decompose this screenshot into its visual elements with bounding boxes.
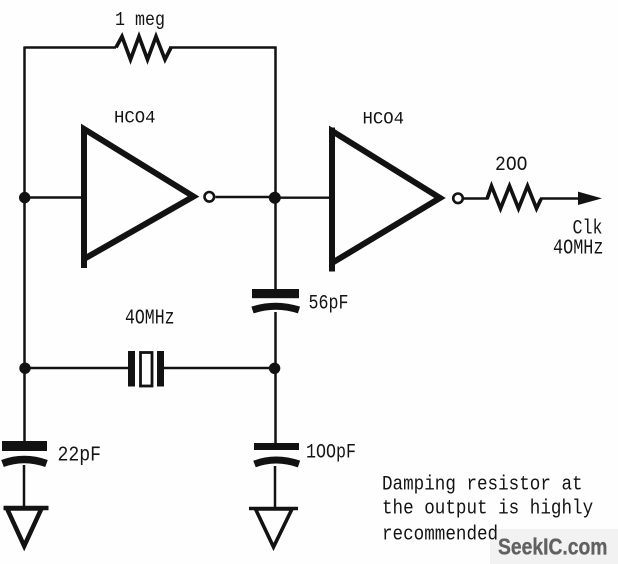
svg-text:recommended: recommended (382, 523, 498, 546)
wire C2 to ground (23, 465, 26, 508)
wire U2 output to R2 (464, 197, 488, 199)
svg-text:the output is highly: the output is highly (382, 497, 593, 520)
U1 bottom edge overshoot (81, 258, 87, 268)
capacitor C2 22pF curved plate (3, 460, 47, 464)
svg-text:2OO: 2OO (495, 153, 527, 176)
wire top feedback right segment (169, 46, 277, 48)
U2 bottom edge overshoot (329, 262, 335, 272)
wire U1 output to node B (216, 196, 277, 198)
crystal Y1 body rectangle (141, 353, 153, 387)
wire crystal line left (25, 367, 129, 369)
ground symbol right (249, 509, 298, 548)
svg-text:HCO4: HCO4 (114, 109, 156, 128)
wire crystal line right (163, 367, 275, 369)
svg-text:1 meg: 1 meg (115, 10, 165, 31)
svg-text:4OMHz: 4OMHz (125, 306, 174, 330)
svg-text:1OOpF: 1OOpF (306, 440, 356, 464)
wire R2 to output arrow (540, 197, 580, 200)
U1 output bubble (205, 192, 215, 202)
capacitor C1 56pF curved plate (253, 306, 300, 310)
watermark background strip (490, 529, 618, 564)
wire top feedback left segment (25, 46, 117, 48)
wire right vertical rail lower (274, 466, 277, 508)
capacitor C2 22pF top plate (2, 441, 47, 451)
U2 output bubble (453, 194, 463, 204)
crystal Y1 right plate (157, 351, 164, 387)
wire node B to inverter U2 (276, 196, 331, 198)
node A dot (input junction) (19, 192, 30, 203)
U2 top edge overshoot (329, 128, 335, 132)
op-amp U2 HC04 inverter triangle (332, 131, 440, 263)
wire right vertical rail middle (274, 312, 277, 444)
node D dot (crystal right junction) (269, 363, 280, 374)
svg-text:SeekIC.com: SeekIC.com (498, 535, 607, 560)
op-amp U1 HC04 inverter triangle (84, 129, 194, 259)
svg-text:HCO4: HCO4 (363, 110, 405, 129)
crystal Y1 left plate (128, 351, 135, 387)
wire input to inverter U1 (25, 196, 83, 198)
output arrowhead (578, 192, 602, 205)
wire left vertical rail (23, 47, 26, 443)
capacitor C3 100pF top plate (254, 443, 299, 450)
capacitor C3 100pF curved plate (255, 460, 300, 464)
node B dot (inter-stage junction) (269, 192, 281, 204)
resistor R2 200 (487, 186, 541, 209)
node C dot (crystal left junction) (19, 363, 30, 374)
ground symbol left (4, 508, 49, 546)
resistor R 1 meg (116, 37, 171, 60)
svg-text:56pF: 56pF (309, 292, 349, 315)
svg-text:Damping resistor at: Damping resistor at (382, 473, 583, 496)
capacitor C1 56pF top plate (252, 289, 299, 298)
wire right vertical rail upper (274, 47, 277, 291)
svg-text:22pF: 22pF (58, 442, 102, 467)
svg-text:4OMHz: 4OMHz (553, 236, 603, 260)
